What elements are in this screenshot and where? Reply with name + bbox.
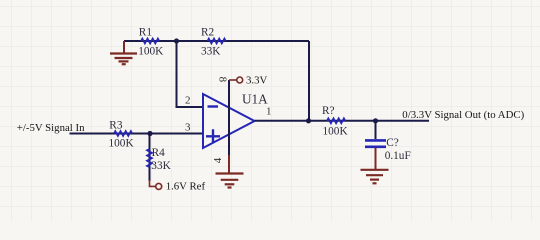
svg-text:100K: 100K [323, 126, 349, 138]
op-amp plus input mark [206, 129, 220, 143]
wire cap bottom lead [375, 148, 377, 169]
node junction R3/R4 [147, 131, 152, 136]
wire top: ground to R1 to junction to R2 to corner [124, 40, 309, 42]
node output junction [306, 118, 311, 123]
svg-text:8: 8 [217, 77, 229, 83]
svg-text:C?: C? [386, 137, 399, 149]
svg-text:R4: R4 [152, 147, 166, 159]
wire feedback right vertical [308, 41, 310, 121]
ground GND2 stem [228, 155, 230, 173]
resistor R2 [208, 39, 226, 44]
power port 3.3V [229, 77, 243, 83]
capacitor C? [365, 140, 386, 146]
ground GND1 left stem [123, 41, 125, 53]
svg-text:U1A: U1A [242, 92, 268, 107]
op-amp minus input mark [208, 105, 219, 107]
resistor R? [327, 118, 345, 123]
pin 8 / pin 4 vertical line [228, 80, 230, 155]
svg-text:1: 1 [266, 105, 272, 117]
wire feedback left vertical to pin2 [177, 41, 204, 107]
svg-text:0/3.3V Signal Out (to ADC): 0/3.3V Signal Out (to ADC) [402, 109, 524, 121]
op-amp U1A [203, 94, 255, 148]
resistor R4 [147, 149, 152, 167]
svg-text:R1: R1 [139, 27, 152, 39]
svg-text:0.1uF: 0.1uF [385, 150, 411, 162]
resistor R3 [114, 131, 132, 136]
svg-text:R2: R2 [201, 27, 215, 39]
svg-text:100K: 100K [109, 137, 135, 149]
svg-text:33K: 33K [151, 160, 171, 172]
svg-text:4: 4 [212, 157, 224, 163]
resistor R1 [141, 39, 159, 44]
wire cap top lead [375, 121, 377, 139]
svg-text:33K: 33K [201, 46, 221, 58]
node junction top (R1/R2/feedback) [174, 38, 179, 43]
svg-text:3.3V: 3.3V [246, 75, 267, 87]
svg-text:R?: R? [322, 105, 335, 117]
svg-text:R3: R3 [109, 120, 123, 132]
svg-text:3: 3 [185, 122, 191, 134]
svg-text:100K: 100K [138, 46, 164, 58]
svg-text:2: 2 [185, 94, 191, 106]
wire output pin1 to end [255, 120, 430, 122]
ground GND3 [361, 170, 389, 184]
svg-text:+/-5V Signal In: +/-5V Signal In [17, 122, 85, 134]
power port 1.6V Ref [150, 180, 162, 189]
wire R4 vertical [149, 134, 151, 182]
wire input signal [70, 133, 204, 135]
ground GND2 [216, 174, 244, 188]
node capacitor junction [373, 118, 378, 123]
ground GND1 [110, 54, 137, 65]
svg-text:1.6V Ref: 1.6V Ref [166, 181, 206, 193]
